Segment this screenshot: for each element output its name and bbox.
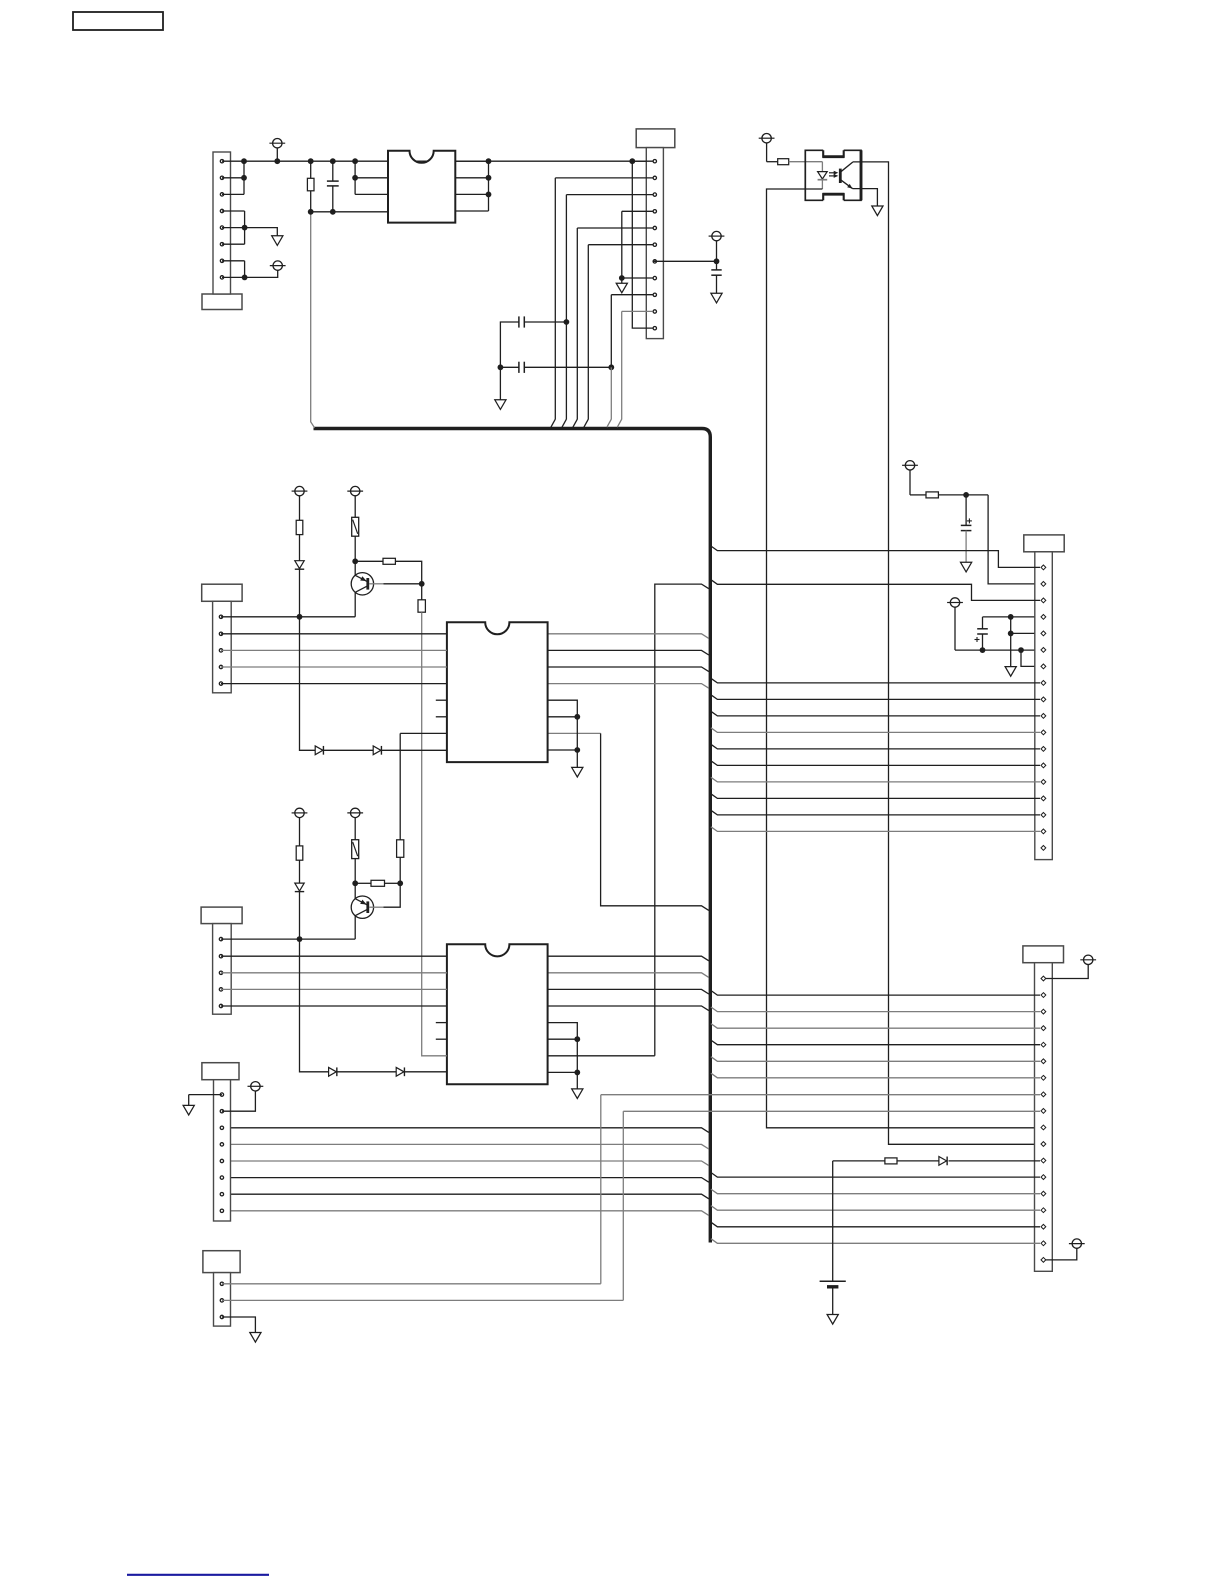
wire: [554, 178, 556, 420]
wire: [354, 883, 356, 898]
capacitor C3: [519, 362, 524, 373]
junction: [352, 880, 358, 886]
wire: [548, 716, 578, 718]
wire: [354, 916, 356, 939]
wire: [711, 827, 1040, 832]
wire: [354, 859, 356, 884]
plus mark: [967, 518, 972, 523]
wire: [789, 161, 823, 163]
power terminal: [248, 1082, 264, 1091]
power terminal: [947, 598, 963, 650]
phototransistor in PC1: [840, 162, 853, 189]
junction: [308, 209, 314, 215]
junction: [714, 258, 720, 264]
junction: [419, 581, 425, 587]
resistor R5: [352, 517, 359, 536]
wire: [588, 244, 653, 246]
ground: [272, 236, 283, 246]
wire: [311, 211, 388, 213]
wire: [821, 180, 823, 189]
junction: [297, 936, 303, 942]
junction: [1018, 647, 1024, 653]
wire: [222, 260, 245, 262]
wire: [716, 275, 718, 293]
resistor R7: [418, 600, 425, 612]
wire: [455, 193, 488, 195]
bus: [314, 429, 711, 1243]
wire: [711, 1040, 1040, 1045]
connector CN6: [201, 907, 242, 1014]
junction: [274, 158, 280, 164]
wire: [222, 193, 244, 195]
wire: [833, 1160, 885, 1162]
wire: [244, 261, 246, 278]
wire: [711, 1206, 1040, 1211]
wire: [524, 366, 611, 368]
wire: [222, 276, 245, 278]
wire: [632, 160, 653, 162]
wire: [222, 1299, 623, 1301]
opto-coupler PC1 body: [805, 150, 861, 200]
wire: [436, 699, 447, 701]
wire: [982, 617, 984, 629]
footer rule: [127, 1574, 269, 1576]
junction: [352, 558, 358, 564]
ground: [827, 1315, 838, 1325]
wire: [655, 584, 709, 1056]
junction: [980, 647, 986, 653]
wire: [222, 1144, 709, 1149]
connector CN3: [1024, 535, 1064, 860]
junction: [1008, 631, 1014, 637]
wire: [421, 584, 423, 600]
power terminal: [270, 261, 286, 270]
wire: [621, 211, 623, 278]
resistor R11: [397, 840, 404, 858]
junction: [242, 275, 248, 281]
wire: [938, 494, 988, 496]
resistor R10: [371, 880, 385, 886]
junction: [397, 880, 403, 886]
junction: [608, 364, 614, 370]
wire: [455, 177, 488, 179]
junction: [486, 175, 492, 181]
wire: [853, 189, 878, 206]
wire: [245, 270, 278, 277]
wire: [222, 160, 244, 162]
junction: [241, 158, 247, 164]
junction: [308, 158, 314, 164]
resistor R9: [352, 840, 359, 859]
wire: [222, 1194, 709, 1199]
wire: [548, 749, 578, 751]
wire: [577, 227, 653, 229]
wire: [611, 294, 653, 296]
wire: [965, 531, 967, 563]
diode D1: [295, 561, 304, 570]
wire: [832, 1161, 834, 1281]
junction: [574, 714, 580, 720]
power terminal: [709, 231, 725, 261]
wire: [955, 649, 1040, 651]
wire: [222, 227, 245, 229]
wire: [711, 744, 1040, 749]
diode D2: [315, 746, 323, 755]
wire: [221, 633, 447, 635]
wire: [622, 1111, 624, 1300]
wire: [221, 955, 447, 957]
ground: [250, 1333, 261, 1343]
wire: [222, 1317, 256, 1333]
wire: [384, 583, 422, 585]
wire: [300, 939, 447, 1072]
resistor R8: [296, 846, 303, 860]
wire: [600, 1095, 602, 1284]
wire: [243, 161, 245, 194]
wire: [299, 892, 301, 939]
opto arrows: [829, 171, 838, 178]
wire: [548, 1006, 709, 1011]
wire: [548, 956, 709, 961]
wire: [548, 1071, 578, 1073]
capacitor C2: [519, 316, 524, 327]
capacitor C4: [711, 270, 721, 275]
wire: [436, 1038, 447, 1040]
wire: [548, 1038, 578, 1040]
junction: [963, 492, 969, 498]
power terminal: [292, 486, 308, 520]
wire: [711, 1057, 1040, 1062]
wire: [221, 938, 355, 940]
junction: [629, 158, 635, 164]
wire: [355, 560, 383, 562]
wire: [711, 991, 1040, 996]
wire: [610, 295, 612, 368]
wire: [548, 973, 709, 978]
wire: [384, 883, 401, 907]
diode D6: [396, 1067, 404, 1076]
wire: [500, 366, 519, 368]
wire: [982, 634, 984, 650]
wire: [711, 678, 1040, 683]
wire: [436, 716, 447, 718]
wire: [222, 210, 245, 212]
IC U1: [388, 151, 455, 223]
power terminal: [292, 808, 308, 846]
wire: [385, 882, 401, 884]
wire: [555, 177, 653, 179]
wire: [632, 161, 653, 328]
wire: [622, 210, 653, 212]
wire: [711, 1024, 1040, 1029]
wire: [711, 1073, 1040, 1078]
wire: [221, 616, 355, 618]
ground: [872, 206, 883, 216]
wire: [711, 695, 1040, 700]
junction: [574, 1070, 580, 1076]
wire: [897, 1160, 939, 1162]
wire: [607, 419, 611, 427]
junction: [564, 319, 570, 325]
transistor Q1: [351, 573, 373, 595]
wire: [299, 570, 301, 617]
junction: [330, 158, 336, 164]
wire: [548, 650, 709, 655]
junction: [1008, 614, 1014, 620]
junction: [297, 614, 303, 620]
wire: [1010, 617, 1012, 667]
wire: [222, 177, 244, 179]
wire: [551, 419, 555, 427]
connector CN1: [202, 152, 242, 310]
wire: [455, 160, 488, 162]
IC U3: [447, 944, 548, 1084]
wire: [524, 321, 566, 323]
wire: [221, 972, 447, 974]
wire: [767, 161, 778, 163]
junction: [330, 209, 336, 215]
wire: [711, 1189, 1040, 1194]
wire: [622, 277, 653, 279]
label box: [73, 12, 163, 30]
wire: [711, 794, 1040, 799]
wire: [355, 882, 371, 884]
ground: [495, 400, 506, 410]
wire: [910, 494, 926, 496]
wire: [965, 495, 967, 526]
wire: [222, 1091, 256, 1111]
wire: [576, 228, 578, 419]
wire: [299, 860, 301, 883]
wire: [711, 1239, 1040, 1244]
IC U2: [447, 622, 548, 762]
ground: [572, 767, 583, 777]
wire: [767, 189, 1041, 1128]
wire: [222, 1161, 709, 1166]
junction: [352, 158, 358, 164]
diode D3: [373, 746, 381, 755]
wire: [610, 367, 612, 419]
wire: [395, 561, 421, 584]
wire: [621, 278, 623, 283]
wire: [222, 1211, 709, 1216]
wire: [455, 210, 488, 212]
wire: [500, 322, 519, 400]
wire: [949, 1160, 1041, 1162]
capacitor C1: [327, 181, 339, 186]
connector CN4: [202, 584, 242, 693]
wire: [711, 711, 1040, 716]
wire: [1046, 1248, 1077, 1260]
ground: [616, 283, 627, 293]
diode D5: [329, 1067, 337, 1076]
wire: [332, 161, 334, 181]
power terminal: [1080, 955, 1096, 964]
wire: [300, 617, 447, 751]
wire: [573, 419, 577, 427]
wire: [299, 535, 301, 561]
wire: [548, 684, 709, 689]
wire: [711, 1222, 1040, 1227]
wire: [853, 162, 1040, 1144]
wire: [221, 988, 447, 990]
plus mark: [975, 637, 980, 642]
wire: [566, 194, 652, 196]
wire: [711, 580, 1040, 601]
power terminal: [902, 461, 918, 495]
capacitor C5: [961, 525, 972, 530]
junction: [486, 192, 492, 198]
connector CN2: [636, 129, 675, 339]
wire: [222, 243, 245, 245]
wire: [221, 683, 447, 685]
wire: [832, 1287, 834, 1315]
wire: [436, 1022, 447, 1024]
wire: [548, 634, 709, 639]
ground: [183, 1105, 194, 1115]
junction: [486, 158, 492, 164]
wire: [584, 419, 588, 427]
diode D7: [939, 1157, 947, 1166]
wire: [653, 260, 717, 262]
wire: [711, 810, 1040, 815]
wire: [548, 989, 709, 994]
connector CN8: [203, 1251, 240, 1326]
connector CN5: [1023, 946, 1064, 1271]
capacitor C6: [977, 629, 988, 634]
wire: [221, 649, 447, 651]
resistor R1: [307, 178, 314, 191]
power terminal: [347, 486, 363, 517]
resistor R12: [885, 1158, 897, 1164]
wire: [310, 161, 312, 178]
junction: [619, 275, 625, 281]
wire: [355, 193, 388, 195]
transistor Q2: [351, 896, 373, 918]
wire: [548, 732, 601, 734]
ground: [572, 1089, 583, 1099]
LED in PC1: [818, 172, 828, 180]
wire: [988, 495, 1040, 584]
wire: [983, 616, 1041, 618]
wire: [562, 419, 566, 427]
wire: [488, 161, 490, 211]
wire: [221, 666, 447, 668]
wire: [601, 1094, 1040, 1096]
diode D4: [295, 883, 304, 892]
wire: [711, 546, 1040, 567]
wire: [244, 211, 246, 244]
junction: [574, 747, 580, 753]
ground: [1005, 667, 1016, 677]
wire: [399, 733, 401, 839]
wire: [1021, 650, 1040, 666]
wire: [622, 310, 653, 312]
wire: [354, 561, 356, 575]
wire: [711, 1007, 1040, 1012]
power terminal: [1069, 1239, 1085, 1248]
wire: [711, 777, 1040, 782]
wire: [222, 1283, 601, 1285]
wire: [1011, 632, 1040, 634]
wire: [617, 419, 621, 427]
resistor R3: [926, 492, 938, 498]
wire: [188, 1095, 190, 1106]
wire: [221, 1005, 447, 1007]
battery BT1: [820, 1281, 846, 1287]
wire: [821, 162, 823, 172]
wire: [355, 177, 388, 179]
junction: [241, 175, 247, 181]
wire: [711, 1173, 1040, 1178]
wire: [399, 857, 401, 883]
wire: [311, 212, 315, 428]
wire: [548, 700, 578, 767]
wire: [189, 1094, 222, 1096]
junction: [242, 225, 248, 231]
wire: [1046, 965, 1088, 979]
wire: [354, 592, 356, 616]
wire: [310, 191, 312, 212]
wire: [565, 195, 567, 420]
resistor R4: [296, 520, 303, 534]
connector CN7: [202, 1063, 239, 1221]
wire: [548, 667, 709, 672]
junction: [352, 175, 358, 181]
wire: [621, 311, 623, 419]
wire: [601, 733, 709, 910]
wire: [711, 728, 1040, 733]
wire: [548, 1055, 655, 1057]
wire: [548, 1023, 578, 1089]
wire: [587, 245, 589, 420]
ground: [711, 293, 722, 303]
junction: [498, 364, 504, 370]
wire: [354, 536, 356, 561]
wire: [400, 732, 447, 734]
resistor R6: [383, 558, 395, 564]
wire: [332, 186, 334, 212]
junction: [574, 1036, 580, 1042]
power terminal: [269, 139, 285, 162]
wire: [369, 583, 383, 585]
wire: [222, 1178, 709, 1183]
wire: [422, 612, 447, 1056]
resistor R2: [778, 159, 789, 165]
wire: [222, 1128, 709, 1133]
wire: [354, 161, 356, 194]
wire: [244, 160, 655, 162]
wire: [716, 261, 718, 270]
wire: [369, 906, 383, 908]
power terminal: [759, 134, 775, 162]
ground: [961, 562, 972, 572]
power terminal: [347, 808, 363, 840]
wire: [245, 228, 278, 236]
wire: [623, 1110, 1040, 1112]
wire: [711, 761, 1040, 766]
